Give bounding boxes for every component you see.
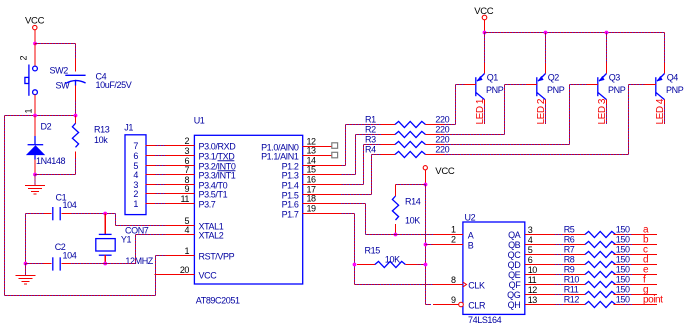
U1 pin 9 P3.5/T1: [165, 193, 194, 195]
wire VCC node to C4 top: [35, 43, 76, 45]
junction rail at Q2: [544, 31, 548, 35]
svg-text:Y1: Y1: [121, 235, 132, 245]
wire U2 QF to R10: [555, 284, 564, 286]
base stub Q4: [645, 84, 656, 86]
svg-text:220: 220: [435, 135, 449, 145]
wire U2 QA to R5: [555, 234, 564, 236]
svg-text:P1.6: P1.6: [282, 199, 299, 209]
svg-text:150: 150: [616, 265, 630, 275]
svg-text:1N4148: 1N4148: [36, 156, 66, 166]
svg-text:VCC: VCC: [25, 16, 45, 27]
svg-text:220: 220: [435, 145, 449, 155]
base stub Q3: [587, 84, 598, 86]
U1 pin 16 P1.4: [303, 184, 341, 186]
wire U2 QG to R11: [555, 294, 564, 296]
svg-text:P3.1/TXD: P3.1/TXD: [199, 151, 236, 161]
svg-text:10K: 10K: [385, 254, 400, 264]
svg-text:R1: R1: [365, 115, 376, 125]
svg-text:150: 150: [616, 295, 630, 305]
junction at D2 anode / ground: [33, 173, 37, 177]
wire R10 to segment f: [623, 284, 632, 286]
U1 pin 14 P1.2: [303, 165, 341, 167]
ground symbol (oscillator): [25, 264, 27, 276]
wire C2/crystal to XTAL2: [71, 263, 136, 265]
svg-text:2: 2: [19, 56, 29, 61]
switch SW2 pin 1 stub: [34, 95, 36, 116]
U1 pin 15 P1.3: [303, 174, 341, 176]
svg-text:QE: QE: [508, 270, 521, 280]
svg-text:PNP: PNP: [547, 85, 565, 95]
wire VCC to R14 top: [396, 184, 426, 186]
svg-text:12MHZ: 12MHZ: [125, 256, 153, 266]
svg-text:13: 13: [528, 295, 538, 305]
wire Q3 base link: [570, 84, 587, 86]
svg-text:AT89C2051: AT89C2051: [196, 296, 240, 306]
wire J1-3 to U1: [155, 184, 165, 186]
svg-text:6: 6: [133, 151, 138, 161]
U1 pin 7 P3.3/INT1: [165, 174, 194, 176]
capacitor C2: [44, 263, 52, 265]
svg-text:SW2: SW2: [50, 66, 69, 76]
U2 pin 4 QB: [525, 244, 555, 246]
svg-text:220: 220: [435, 115, 449, 125]
transistor Q2 PNP: [536, 77, 538, 96]
svg-text:P3.7: P3.7: [199, 199, 216, 209]
svg-text:P1.1/AIN1: P1.1/AIN1: [261, 151, 299, 161]
U2 pin 6 QD: [525, 264, 555, 266]
U1 pin 2 P3.0/RXD: [165, 145, 194, 147]
resistor R14 10K: [395, 185, 397, 197]
wire R9 to segment e: [623, 274, 632, 276]
wire R2 to Q2 base: [443, 134, 505, 136]
power symbol VCC (shift register): [423, 166, 427, 170]
svg-text:R15: R15: [365, 245, 381, 255]
wire clock to U2 CLK: [355, 284, 434, 286]
svg-text:7: 7: [133, 141, 138, 151]
wire R5 to segment a: [623, 234, 632, 236]
svg-text:4: 4: [133, 170, 138, 180]
switch SW2 pin 2 stub: [34, 44, 36, 67]
wire collector Q2: [545, 100, 547, 104]
svg-text:1: 1: [184, 246, 189, 256]
wire left rail down / bottom rail to RST: [4, 116, 6, 296]
svg-text:150: 150: [616, 235, 630, 245]
svg-text:10: 10: [528, 265, 538, 275]
wire C1 left to ground column: [26, 213, 45, 215]
svg-text:1: 1: [451, 225, 456, 235]
wire reset node horizontal: [5, 115, 76, 117]
svg-text:150: 150: [616, 285, 630, 295]
svg-text:10k: 10k: [94, 135, 108, 145]
wire to CLR pin: [426, 304, 432, 306]
U2 pin 5 QC: [525, 254, 555, 256]
transistor Q3 PNP: [597, 77, 599, 96]
pushbutton switch SW2: [33, 66, 38, 71]
svg-text:5: 5: [528, 245, 533, 255]
wire emitter Q2: [545, 33, 547, 64]
capacitor C4 (electrolytic): [75, 58, 77, 72]
svg-text:PNP: PNP: [486, 85, 504, 95]
U2 pin 12 QG: [525, 294, 555, 296]
wire R6 to segment b: [623, 244, 632, 246]
svg-text:QC: QC: [508, 250, 522, 260]
svg-text:4: 4: [528, 235, 533, 245]
svg-text:XTAL2: XTAL2: [199, 230, 224, 240]
svg-text:RST/VPP: RST/VPP: [199, 251, 235, 261]
svg-text:P3.5/T1: P3.5/T1: [199, 189, 228, 199]
svg-text:R13: R13: [94, 125, 110, 135]
wire ground column C1-C2: [25, 214, 27, 264]
resistor R4 220: [381, 154, 395, 156]
capacitor C1: [44, 213, 52, 215]
wire C2 left: [26, 263, 45, 265]
svg-text:R3: R3: [365, 135, 376, 145]
wire J1-1 to U1: [155, 203, 165, 205]
svg-text:2: 2: [451, 235, 456, 245]
svg-text:1: 1: [133, 199, 138, 209]
wire J1-5 to U1: [155, 165, 165, 167]
junction crystal top node: [103, 212, 107, 216]
svg-text:1: 1: [24, 109, 34, 114]
U1 pin 12 P1.0/AIN0: [303, 146, 332, 148]
resistor R5 150: [563, 234, 585, 236]
wire Q1 base link: [456, 84, 465, 86]
junction at R13 top: [74, 114, 78, 118]
resistor R13: [75, 116, 77, 124]
svg-text:11: 11: [528, 275, 537, 285]
U1 pin 8 P3.4/T0: [165, 184, 194, 186]
svg-text:CLK: CLK: [468, 280, 485, 290]
svg-text:16: 16: [307, 174, 317, 184]
svg-text:R10: R10: [564, 275, 580, 285]
svg-text:150: 150: [616, 275, 630, 285]
resistor R12 150: [563, 304, 585, 306]
wire U2 QB to R6: [555, 244, 564, 246]
resistor R11 150: [563, 294, 585, 296]
U2 pin 1 A: [433, 234, 463, 236]
wire VCC rail: [485, 32, 665, 34]
svg-text:P1.3: P1.3: [282, 170, 299, 180]
resistor R7 150: [563, 254, 585, 256]
resistor R9 150: [563, 274, 585, 276]
U2 pin 9 CLR (active low): [433, 304, 459, 306]
wire collector Q4: [664, 100, 666, 104]
U1 pin 19 P1.7: [303, 213, 341, 215]
svg-text:R2: R2: [365, 125, 376, 135]
svg-text:QF: QF: [509, 280, 522, 290]
base stub Q1: [465, 84, 476, 86]
svg-text:104: 104: [63, 200, 77, 210]
wire R8 to segment d: [623, 264, 632, 266]
resistor R10 150: [563, 284, 585, 286]
U1 pin 3 P3.1/TXD: [165, 155, 194, 157]
svg-text:74LS164: 74LS164: [468, 315, 502, 325]
resistor R8 150: [563, 264, 585, 266]
wire D2 anode to R13 bottom: [35, 174, 76, 176]
svg-text:R8: R8: [564, 255, 575, 265]
junction C2 left / ground: [24, 262, 28, 266]
svg-text:15: 15: [307, 164, 317, 174]
connector J1: [125, 135, 146, 215]
resistor R2 220: [381, 134, 395, 136]
wire P1.5 to R4: [341, 194, 372, 196]
crystal Y1: [104, 214, 106, 234]
junction R15 left: [353, 263, 357, 267]
U1 pin 4 XTAL2: [165, 234, 194, 236]
wire J1-4 to U1: [155, 174, 165, 176]
wire R7 to segment c: [623, 254, 632, 256]
svg-text:2: 2: [184, 136, 189, 146]
wire U2 QD to R8: [555, 264, 564, 266]
wire J1-7 to U1: [155, 145, 165, 147]
svg-text:QG: QG: [507, 290, 521, 300]
svg-text:CLR: CLR: [468, 301, 486, 311]
svg-text:LED 2: LED 2: [536, 98, 547, 124]
svg-text:P3.0/RXD: P3.0/RXD: [199, 141, 237, 151]
wire P1.4 to R3: [341, 184, 364, 186]
power symbol VCC top-left: [33, 25, 37, 29]
junction crystal bottom node: [103, 262, 107, 266]
wire R11 to segment g: [623, 294, 632, 296]
svg-text:7: 7: [184, 165, 189, 175]
svg-text:LED 1: LED 1: [475, 98, 486, 124]
U1 pin 5 XTAL1: [165, 225, 194, 227]
wire R1 to Q1 base: [443, 124, 456, 126]
svg-text:11: 11: [181, 194, 190, 204]
transistor Q4 PNP: [655, 77, 657, 96]
U1 pin 13 P1.1/AIN1: [303, 155, 332, 157]
U1 pin 1 RST/VPP: [165, 255, 194, 257]
no-connect marker pin 12: [332, 143, 338, 149]
wire collector Q1: [484, 100, 486, 104]
svg-text:9: 9: [451, 295, 456, 305]
transistor Q1 PNP: [475, 77, 477, 96]
junction at switch pin 2 node: [33, 42, 37, 46]
IC U1 AT89C2051 body: [194, 135, 302, 284]
svg-text:B: B: [468, 240, 474, 250]
wire emitter Q1: [484, 33, 486, 64]
svg-text:QB: QB: [508, 240, 521, 250]
svg-text:R14: R14: [405, 196, 421, 206]
U1 pin 6 P3.2/INT0: [165, 165, 194, 167]
svg-text:6: 6: [528, 255, 533, 265]
junction B pin node: [424, 243, 428, 247]
svg-text:QH: QH: [508, 300, 521, 310]
U2 pin 10 QE: [525, 274, 555, 276]
wire emitter Q4: [664, 33, 666, 64]
wire J1-6 to U1: [155, 155, 165, 157]
svg-text:R7: R7: [564, 245, 575, 255]
base stub Q2: [526, 84, 537, 86]
svg-text:4: 4: [184, 225, 189, 235]
wire P1.2 to R1: [341, 165, 346, 167]
wire VCC vertical to CLR: [425, 185, 427, 305]
junction VCC/R14 node: [424, 183, 428, 187]
svg-text:10uF/25V: 10uF/25V: [96, 80, 132, 90]
U2 pin 11 QF: [525, 284, 555, 286]
svg-text:Q2: Q2: [548, 73, 560, 83]
wire R3 to Q3 base: [443, 144, 570, 146]
wire P1.3 to R2: [341, 174, 356, 176]
junction R14 bottom / A-B node: [394, 233, 398, 237]
svg-text:P1.4: P1.4: [282, 180, 299, 190]
resistor R6 150: [563, 244, 585, 246]
svg-text:CON7: CON7: [125, 226, 149, 236]
ground symbol (reset network): [34, 175, 36, 186]
svg-text:12: 12: [528, 285, 538, 295]
wire J1-2 to U1: [155, 193, 165, 195]
svg-text:QA: QA: [508, 230, 521, 240]
U2 pin 2 B: [426, 244, 434, 246]
svg-text:VCC: VCC: [435, 166, 455, 177]
svg-text:LED 3: LED 3: [597, 98, 608, 124]
svg-text:J1: J1: [124, 122, 133, 132]
svg-text:Q1: Q1: [487, 73, 499, 83]
svg-text:Q3: Q3: [609, 73, 621, 83]
svg-text:QD: QD: [508, 260, 522, 270]
IC U2 74LS164 body: [463, 222, 525, 314]
svg-text:220: 220: [435, 125, 449, 135]
wire C1 to XTAL1: [71, 213, 116, 215]
diode D2 1N4148: [34, 116, 36, 137]
wire collector Q3: [606, 100, 608, 104]
U2 pin 13 QH: [525, 304, 555, 306]
resistor R3 220: [381, 144, 395, 146]
svg-text:9: 9: [184, 184, 189, 194]
svg-text:point: point: [643, 295, 663, 306]
U1 pin 17 P1.5: [303, 194, 341, 196]
wire U2 QE to R9: [555, 274, 564, 276]
svg-text:R6: R6: [564, 235, 575, 245]
wire Q4 base link: [629, 84, 645, 86]
svg-text:3: 3: [528, 225, 533, 235]
svg-text:R9: R9: [564, 265, 575, 275]
svg-text:Q4: Q4: [667, 73, 679, 83]
svg-text:P1.7: P1.7: [282, 209, 299, 219]
power symbol VCC (transistor rail): [482, 15, 487, 20]
U1 pin 20 VCC: [155, 274, 195, 276]
resistor R1 220: [381, 124, 395, 126]
wire Q2 base link: [505, 84, 526, 86]
svg-text:VCC: VCC: [199, 270, 218, 280]
svg-text:2: 2: [133, 189, 138, 199]
wire U2 QH to R12: [555, 304, 564, 306]
svg-text:U2: U2: [465, 213, 476, 223]
svg-text:P3.3/INT1: P3.3/INT1: [199, 170, 236, 180]
svg-text:PNP: PNP: [666, 85, 684, 95]
wire R4 to Q4 base: [443, 154, 629, 156]
U1 pin 11 P3.7: [165, 203, 194, 205]
U2 pin 8 CLK: [433, 284, 463, 286]
svg-text:10K: 10K: [405, 215, 420, 225]
svg-text:U1: U1: [194, 116, 205, 126]
junction at D2 top: [33, 114, 37, 118]
U2 pin 3 QA: [525, 234, 555, 236]
svg-text:LED 4: LED 4: [655, 98, 666, 124]
svg-text:D2: D2: [41, 122, 52, 132]
svg-text:150: 150: [616, 245, 630, 255]
wire emitter Q3: [606, 33, 608, 64]
wire R12 to segment point: [623, 304, 632, 306]
junction rail at Q3: [605, 31, 609, 35]
svg-text:R4: R4: [365, 145, 376, 155]
svg-text:150: 150: [616, 255, 630, 265]
svg-text:R11: R11: [564, 285, 579, 295]
svg-text:8: 8: [451, 275, 456, 285]
svg-text:3: 3: [184, 146, 189, 156]
junction VCC rail at Q1: [483, 31, 487, 35]
svg-text:R12: R12: [564, 295, 580, 305]
svg-text:13: 13: [307, 145, 317, 155]
svg-text:150: 150: [616, 225, 630, 235]
svg-text:A: A: [468, 230, 474, 240]
svg-text:19: 19: [307, 203, 317, 213]
U1 pin 18 P1.6: [303, 203, 341, 205]
resistor R15 10K: [357, 264, 375, 266]
wire U2 QC to R7: [555, 254, 564, 256]
wire P1.7 clock down: [341, 213, 355, 215]
no-connect marker pin 13: [332, 152, 338, 158]
svg-text:104: 104: [63, 251, 77, 261]
junction R15 right: [424, 263, 428, 267]
svg-text:R5: R5: [564, 225, 575, 235]
svg-text:18: 18: [307, 193, 317, 203]
svg-text:20: 20: [180, 265, 190, 275]
wire P1.6 data to U2 A: [341, 203, 366, 205]
svg-text:PNP: PNP: [608, 85, 626, 95]
